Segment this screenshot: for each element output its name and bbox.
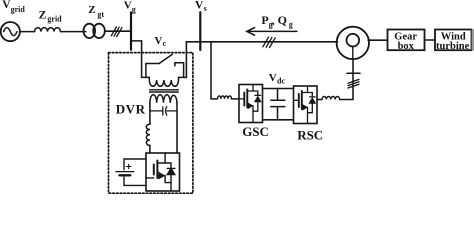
stator wire Vs to generator xyxy=(200,41,337,43)
GSC box xyxy=(239,85,263,123)
shaft wire generator to gear box xyxy=(368,39,387,41)
dc link capacitor Vdc xyxy=(271,89,285,120)
label Vgrid xyxy=(2,0,25,14)
DVR converter IGBT xyxy=(146,153,175,191)
slip ring bar xyxy=(347,72,360,74)
bus Vs xyxy=(199,12,201,50)
filter inductor xyxy=(146,124,150,145)
rotor three-phase slashes xyxy=(348,79,359,88)
label Vdc xyxy=(269,72,286,85)
gear box xyxy=(388,30,425,51)
inductor Zgrid xyxy=(35,28,61,32)
dc link bottom wire xyxy=(263,119,294,121)
transformer core xyxy=(150,90,179,92)
ac source Vgrid circle xyxy=(1,22,20,41)
GSC input inductor xyxy=(218,96,232,99)
svg-text:g: g xyxy=(289,20,293,29)
wire filter inductor to converter xyxy=(149,145,151,153)
svg-text:grid: grid xyxy=(11,5,26,14)
dc storage battery xyxy=(116,159,146,185)
svg-text:g: g xyxy=(132,5,136,14)
svg-text:V: V xyxy=(269,72,277,84)
svg-text:GSC: GSC xyxy=(242,124,269,139)
scan edge artifact at wind turbine box xyxy=(472,29,474,50)
DVR converter box xyxy=(146,153,180,191)
label Gear box xyxy=(394,32,417,53)
label DVR xyxy=(116,102,146,117)
three-phase slashes at Vg xyxy=(111,27,122,37)
wire Vg bus to DVR series left leg xyxy=(131,41,142,78)
RSC IGBT xyxy=(294,86,316,124)
wire inductor to GSC box xyxy=(232,98,240,100)
wire gear box to wind turbine xyxy=(425,39,436,41)
RSC box xyxy=(294,86,318,124)
svg-text:V: V xyxy=(154,35,162,47)
label RSC xyxy=(297,127,323,142)
label Vc xyxy=(154,35,166,48)
power flow arrow Pg Qg xyxy=(247,28,297,36)
injection transformer secondary xyxy=(150,95,177,103)
rotor inductor xyxy=(322,96,340,99)
bus Vg xyxy=(130,12,132,49)
label Vs xyxy=(195,0,207,13)
DVR series right leg to Vs bus xyxy=(186,42,200,78)
generator DFIG xyxy=(337,27,369,59)
svg-text:grid: grid xyxy=(47,14,62,23)
wire transformer to Vg bus xyxy=(105,30,130,32)
filter capacitor branch xyxy=(150,107,177,115)
wind turbine box xyxy=(435,30,472,51)
label Zgt xyxy=(88,4,104,19)
svg-text:Z: Z xyxy=(88,4,95,16)
svg-text:dc: dc xyxy=(277,76,285,85)
wire source to Zgrid xyxy=(20,31,35,33)
three-phase slashes on stator wire xyxy=(263,37,275,48)
label GSC xyxy=(242,124,269,139)
transformer Zgt xyxy=(84,24,105,38)
svg-text:box: box xyxy=(398,41,415,52)
secondary right leg xyxy=(176,103,178,153)
svg-text:gt: gt xyxy=(97,10,104,19)
DVR dashed enclosure xyxy=(109,53,193,194)
dc link top wire xyxy=(263,88,294,90)
GSC IGBT xyxy=(239,85,261,123)
secondary left leg xyxy=(149,103,151,124)
rotor wire RSC to inductor xyxy=(317,99,322,101)
tap wire Vs bus down to GSC xyxy=(211,42,217,99)
svg-text:RSC: RSC xyxy=(297,127,323,142)
label Vg xyxy=(124,0,136,14)
label Pg Qg xyxy=(261,13,292,29)
svg-text:turbine: turbine xyxy=(436,41,470,52)
svg-text:c: c xyxy=(163,39,167,48)
svg-text:DVR: DVR xyxy=(116,102,146,117)
bypass switch xyxy=(146,54,184,77)
svg-text:Z: Z xyxy=(39,9,47,21)
injection transformer primary xyxy=(142,77,187,86)
label Wind turbine xyxy=(436,32,470,53)
svg-text:V: V xyxy=(124,0,132,12)
rotor wire to generator xyxy=(340,59,353,100)
svg-text:, Q: , Q xyxy=(272,13,287,27)
svg-text:s: s xyxy=(204,4,207,13)
wire Zgrid to transformer Zgt xyxy=(61,31,86,33)
label Zgrid xyxy=(39,9,63,23)
